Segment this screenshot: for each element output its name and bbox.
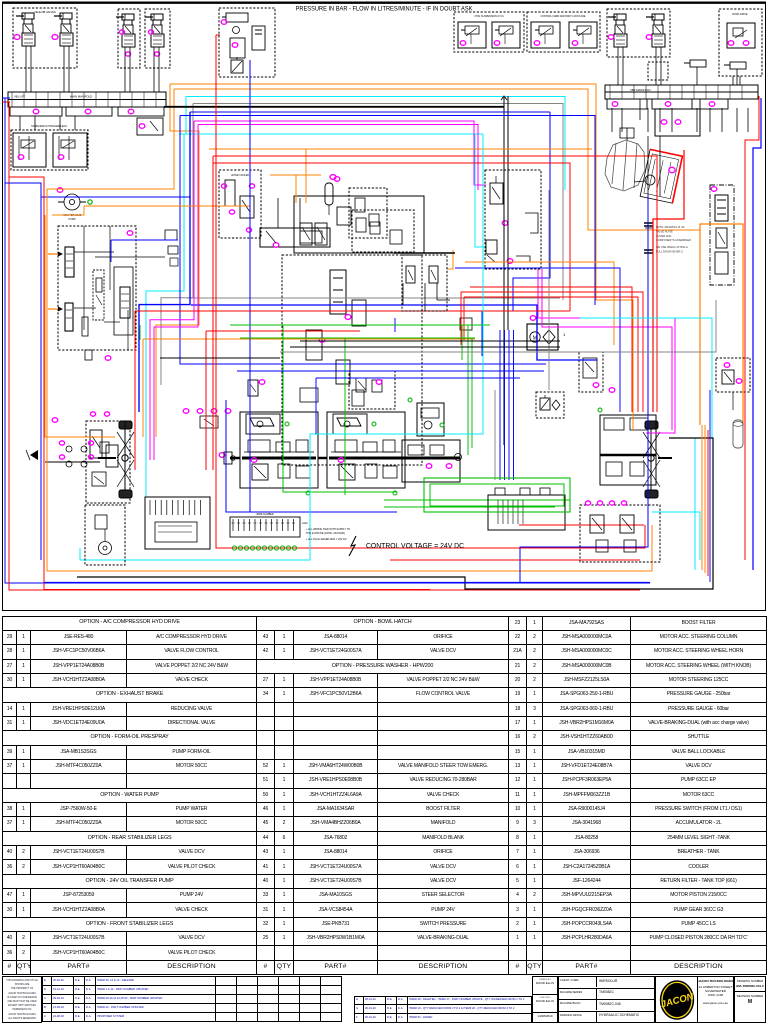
- svg-text:4T/6L SUSPENSION CYLS: 4T/6L SUSPENSION CYLS: [474, 15, 504, 18]
- svg-text:CONTROL VOLTAGE = 24V DC: CONTROL VOLTAGE = 24V DC: [366, 543, 464, 550]
- svg-text:COMPONENTS ASSEMBLED: COMPONENTS ASSEMBLED: [656, 238, 691, 242]
- svg-text:LGD:: LGD:: [302, 521, 308, 525]
- svg-text:+ ALL PLUG-DASED AND = 24V DC: + ALL PLUG-DASED AND = 24V DC: [306, 538, 347, 541]
- svg-text:+ ALL WIRING TIED WITH SUPPLY: + ALL WIRING TIED WITH SUPPLY TO: [306, 528, 350, 531]
- svg-text:MAIN MANIFOLD: MAIN MANIFOLD: [70, 95, 92, 99]
- svg-text:THE 24-HR/TIE (NOTE: 24V/GND): THE 24-HR/TIE (NOTE: 24V/GND): [306, 532, 345, 535]
- svg-text:PUMP: PUMP: [69, 218, 76, 221]
- svg-text:AFTER COOLER: AFTER COOLER: [231, 174, 249, 177]
- svg-text:VB2 MANIFOLD: VB2 MANIFOLD: [630, 88, 651, 92]
- svg-text:PRESSURE IN BAR - FLOW IN LI: PRESSURE IN BAR - FLOW IN LITRES/MINUTE …: [296, 6, 473, 12]
- svg-text:AIR/HYDRAULIC: AIR/HYDRAULIC: [63, 214, 82, 217]
- svg-text:FULL DRUM NEVER S: FULL DRUM NEVER S: [656, 249, 683, 253]
- svg-text:COVER AND: COVER AND: [656, 234, 671, 238]
- svg-text:TELE/JIB VALVES: TELE/JIB VALVES: [34, 10, 56, 14]
- svg-text:STABILIZER OUTRIGGER LEGS: STABILIZER OUTRIGGER LEGS: [31, 125, 67, 128]
- svg-text:1: 1: [563, 332, 566, 337]
- svg-text:NOTE: DRAWING IS OF: NOTE: DRAWING IS OF: [656, 225, 685, 229]
- svg-text:WIRE NUMBER: WIRE NUMBER: [256, 513, 274, 516]
- svg-text:CONTROL CABIN AND BODY LOCKS A: CONTROL CABIN AND BODY LOCKS ARE: [541, 15, 586, 18]
- svg-text:BOWL DRIVE: BOWL DRIVE: [733, 13, 748, 16]
- svg-text:VB1 LIFT: VB1 LIFT: [14, 95, 25, 99]
- svg-text:WE USE WHEN LIFTING A: WE USE WHEN LIFTING A: [656, 245, 688, 249]
